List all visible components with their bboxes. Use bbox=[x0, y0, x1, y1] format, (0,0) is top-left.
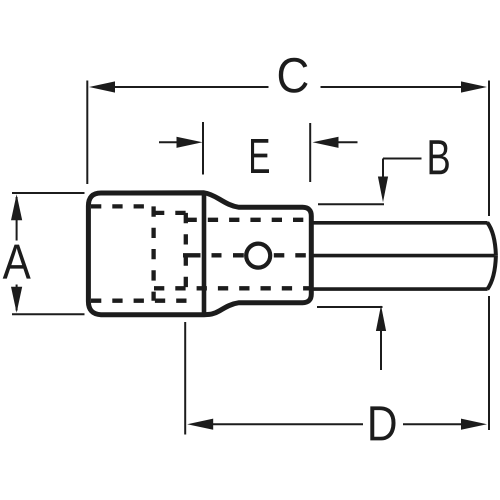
dimension C/D right extension line upper bbox=[488, 81, 490, 217]
hex shaft middle edge bbox=[312, 254, 495, 258]
dashed centerline right of pin hole bbox=[274, 253, 306, 257]
arrowhead D left bbox=[187, 419, 213, 430]
dimension D left extension line bbox=[184, 322, 186, 435]
label C bbox=[279, 58, 308, 93]
dashed middle bore top line bbox=[154, 211, 187, 215]
dashed bit seat wall bbox=[184, 213, 188, 288]
dashed square-drive end wall bbox=[151, 206, 155, 300]
dimension B leader horizontal bbox=[383, 158, 422, 160]
pin hole circle bbox=[246, 244, 270, 268]
arrowhead E left (points right) bbox=[177, 137, 203, 148]
hex shaft outline bbox=[312, 223, 488, 289]
dashed hidden bit bottom line bbox=[154, 286, 311, 290]
label D bbox=[370, 406, 395, 440]
dashed square-drive top line bbox=[91, 204, 154, 208]
arrowhead C right bbox=[461, 81, 487, 92]
dimension B top extension line bbox=[318, 203, 384, 205]
arrowhead E right (points left) bbox=[313, 137, 339, 148]
dashed hidden bit top line bbox=[187, 218, 312, 222]
dimension D line left bbox=[211, 423, 363, 425]
dimension E right arrow line bbox=[334, 141, 358, 143]
arrowhead A up bbox=[11, 194, 22, 220]
hex shaft chamfered tip lower arc bbox=[487, 256, 496, 290]
label A bbox=[3, 245, 31, 279]
arrowhead D right bbox=[461, 419, 487, 430]
hex shaft chamfered tip upper arc bbox=[487, 223, 496, 256]
divider between drive section and nose bbox=[202, 191, 207, 317]
dashed square-drive bottom line bbox=[91, 299, 189, 303]
dimension D line right bbox=[403, 423, 462, 425]
label E bbox=[251, 139, 269, 173]
dimension B bottom extension line bbox=[317, 306, 383, 308]
dimension A lower line bbox=[16, 285, 18, 311]
label B bbox=[430, 140, 449, 174]
dimension C left extension line bbox=[86, 81, 88, 185]
dimension E left extension line bbox=[202, 122, 204, 175]
arrowhead B down bbox=[378, 177, 388, 203]
dimension A top extension line bbox=[12, 192, 85, 194]
dimension A bottom extension line bbox=[12, 313, 85, 315]
arrowhead A down bbox=[11, 287, 22, 313]
socket body silhouette bbox=[88, 193, 311, 315]
dimension C line left bbox=[112, 86, 269, 88]
dimension C/D right extension line lower bbox=[488, 296, 490, 430]
dimension B leader vertical bbox=[382, 159, 384, 177]
dimension E left arrow line bbox=[159, 141, 180, 143]
dimension E right extension line bbox=[309, 123, 311, 182]
arrowhead B bottom up bbox=[376, 305, 386, 331]
dimension B bottom arrow line bbox=[380, 331, 382, 370]
dimension C line right bbox=[321, 86, 465, 88]
arrowhead C left bbox=[89, 81, 115, 92]
dimension A upper line bbox=[16, 197, 18, 241]
dashed centerline left of pin hole bbox=[183, 253, 244, 257]
